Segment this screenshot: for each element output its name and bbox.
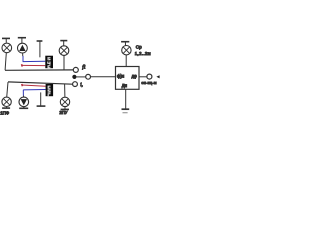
lamp HL1 bbox=[2, 43, 12, 53]
terminal bar above lamp HL5 bbox=[121, 42, 129, 46]
module box A1 (black) bbox=[45, 56, 53, 69]
blue wire row1 bbox=[23, 56, 46, 62]
svg-text:i,: i, bbox=[80, 83, 83, 88]
ground bbox=[122, 109, 130, 113]
microphone BM1 (circle with solid triangle up) bbox=[18, 43, 28, 53]
wire HL5 to amplifier top pin bbox=[125, 55, 127, 67]
blue wire row2 bbox=[23, 90, 45, 96]
HL4 lower stub and terminal bar bbox=[61, 107, 69, 110]
terminal X3 (row2 bus end) bbox=[73, 82, 78, 87]
BA1 lower stub and terminal bar bbox=[19, 107, 28, 109]
lamp HL3 bbox=[2, 97, 11, 106]
wire HL1 to bus bbox=[5, 53, 6, 70]
input wire continues bbox=[91, 76, 116, 78]
wire bus to lamp HL4 bbox=[64, 84, 66, 97]
output wire bbox=[139, 76, 147, 78]
wire blue to speaker BA1 stub bbox=[23, 96, 25, 98]
svg-text:1ПФ: 1ПФ bbox=[0, 110, 10, 115]
module box A2 (black) bbox=[46, 84, 54, 96]
input wire to amplifier bbox=[77, 76, 86, 78]
junction dot input bbox=[72, 75, 76, 79]
output arrow bbox=[156, 75, 159, 78]
terminal bar above lamp HL2 bbox=[60, 41, 67, 46]
svg-text:дφ: дφ bbox=[132, 73, 137, 78]
lamp HL5 bbox=[122, 46, 131, 55]
red wire row1 bbox=[22, 64, 46, 66]
ground wire bbox=[125, 89, 127, 109]
electrode T element row1 bbox=[37, 41, 43, 57]
wire BM1 stub bbox=[22, 53, 24, 56]
bus row2 bbox=[8, 82, 73, 84]
HL3 lower stub and terminal bar bbox=[2, 106, 10, 108]
terminal bar above lamp HL1 bbox=[2, 38, 10, 42]
output terminal X4 bbox=[147, 74, 152, 79]
svg-text:Ср: Ср bbox=[136, 45, 142, 50]
lamp HL4 bbox=[60, 97, 69, 106]
svg-text:fi: fi bbox=[82, 64, 86, 71]
svg-text:2ПУ: 2ПУ bbox=[59, 110, 67, 115]
svg-text:Ди: Ди bbox=[122, 83, 128, 88]
amplifier U1 box bbox=[116, 67, 140, 90]
lamp HL2 bbox=[59, 46, 69, 56]
wire bus to lamp HL3 bbox=[7, 82, 8, 97]
svg-text:он-пц-м: он-пц-м bbox=[141, 81, 156, 85]
speaker BA1 (circle with solid triangle down) bbox=[19, 97, 29, 107]
terminal bar above mic BM1 bbox=[18, 38, 26, 43]
red wire row2 bbox=[22, 84, 46, 86]
electrode T element row2 bbox=[37, 92, 46, 106]
terminal X2 on input wire bbox=[86, 74, 91, 79]
wire HL2 to bus bbox=[63, 55, 65, 70]
svg-text:1,2..2м: 1,2..2м bbox=[135, 51, 151, 56]
bus row1 bbox=[5, 69, 73, 71]
terminal X1 (row1 bus end) bbox=[73, 67, 78, 72]
svg-text:ф)я: ф)я bbox=[117, 73, 124, 78]
